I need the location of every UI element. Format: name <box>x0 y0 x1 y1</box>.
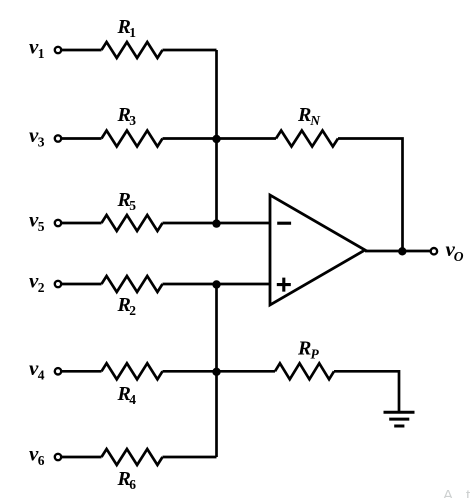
junction node at v2/plus input <box>212 280 220 288</box>
wire v6 to R6 <box>62 456 102 459</box>
resistor R4 <box>102 363 163 407</box>
svg-text:O: O <box>454 249 464 264</box>
resistor RN <box>276 104 338 147</box>
wire R2 to plus bus <box>163 283 217 286</box>
svg-text:2: 2 <box>38 280 45 295</box>
resistor RP <box>275 338 334 380</box>
svg-text:1: 1 <box>129 25 136 40</box>
svg-text:R: R <box>297 338 311 360</box>
node v1 terminal <box>29 35 61 62</box>
node v4 terminal <box>29 356 61 383</box>
resistor R2 <box>102 276 163 318</box>
wire R3 to minus bus <box>163 137 217 140</box>
svg-text:6: 6 <box>38 453 45 468</box>
op-amp U1 <box>270 195 365 305</box>
wire minus bus <box>215 50 218 223</box>
svg-text:3: 3 <box>129 113 136 128</box>
wire minus bus to op-amp inverting input <box>217 222 271 225</box>
wire RN branch: bus to resistor <box>217 137 277 140</box>
svg-text:1: 1 <box>38 46 45 61</box>
svg-text:N: N <box>309 113 321 128</box>
junction node at v4/RP <box>212 368 220 376</box>
resistor R6 <box>102 449 163 492</box>
wire R4 to plus bus <box>163 370 217 373</box>
svg-text:P: P <box>311 346 320 361</box>
junction node at output <box>398 247 406 255</box>
wire RP branch: bus to resistor <box>217 370 276 373</box>
wire R5 to minus bus <box>163 222 217 225</box>
resistor R3 <box>102 104 163 147</box>
node v5 terminal <box>29 208 61 235</box>
svg-text:2: 2 <box>129 303 136 318</box>
svg-text:4: 4 <box>38 367 45 382</box>
svg-text:t: t <box>466 487 471 498</box>
junction node at v5/minus input <box>212 219 220 227</box>
wire v1 to R1 <box>62 49 102 52</box>
node v3 terminal <box>29 123 61 150</box>
resistor R1 <box>102 16 163 58</box>
wire R6 to plus bus <box>163 456 217 459</box>
svg-text:5: 5 <box>38 219 45 234</box>
svg-text:A: A <box>443 487 453 498</box>
ground <box>384 412 415 426</box>
junction node at v3/RN <box>212 135 220 143</box>
wire v2 to R2 <box>62 283 102 286</box>
wire v4 to R4 <box>62 370 102 373</box>
wire plus bus to op-amp noninverting input <box>217 283 271 286</box>
wire R1 to minus bus <box>163 49 217 52</box>
node v2 terminal <box>29 269 61 296</box>
svg-text:6: 6 <box>129 477 136 492</box>
resistor R5 <box>102 189 163 231</box>
wire RP to ground <box>334 371 399 411</box>
wire v3 to R3 <box>62 137 102 140</box>
svg-text:3: 3 <box>38 135 45 150</box>
svg-text:5: 5 <box>129 198 136 213</box>
wire plus bus <box>215 284 218 457</box>
wire RN to output node <box>338 139 403 252</box>
wire op-amp output to vO terminal <box>365 250 430 253</box>
wire v5 to R5 <box>62 222 102 225</box>
node v6 terminal <box>29 442 61 469</box>
svg-text:R: R <box>297 104 311 126</box>
node vO terminal <box>431 237 464 264</box>
svg-text:4: 4 <box>129 392 136 407</box>
